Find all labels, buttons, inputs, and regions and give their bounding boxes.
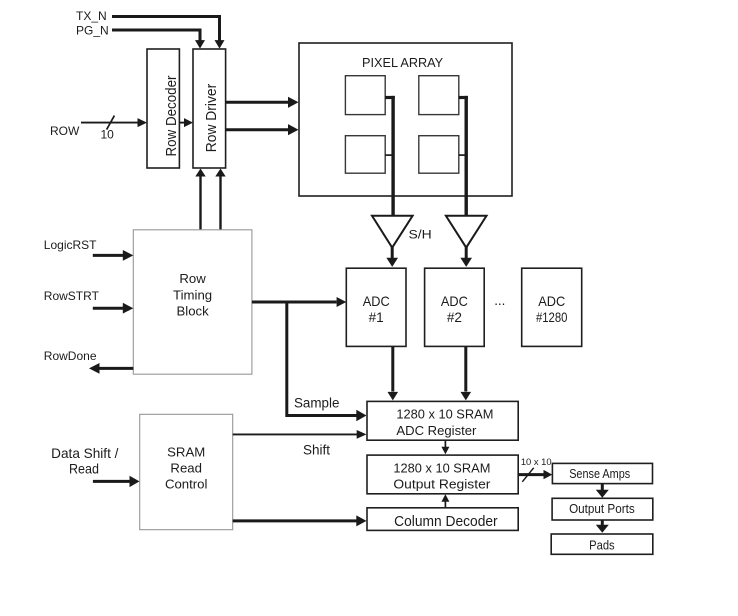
block PIXEL ARRAY xyxy=(299,43,512,196)
svg-text:Column Decoder: Column Decoder xyxy=(394,513,498,530)
label ADC 1280 xyxy=(536,294,568,325)
wire RowSTRT xyxy=(93,303,134,314)
svg-text:S/H: S/H xyxy=(409,227,432,241)
wire Row Timing Block to Row Driver 1 xyxy=(195,169,205,230)
svg-text:Read: Read xyxy=(69,462,99,477)
svg-text:Data Shift /: Data Shift / xyxy=(51,446,118,461)
block Pads xyxy=(551,534,653,554)
svg-text:10: 10 xyxy=(101,128,115,142)
wire RowDone xyxy=(89,363,133,374)
svg-text:PG_N: PG_N xyxy=(76,23,109,37)
wire LogicRST xyxy=(93,250,134,261)
label ADC 2 xyxy=(441,294,468,325)
wire Sense Amps to Output Ports xyxy=(596,484,609,498)
svg-text:LogicRST: LogicRST xyxy=(44,238,97,252)
svg-text:TX_N: TX_N xyxy=(76,9,107,23)
block Row Driver xyxy=(193,49,226,168)
pixel cell bottom-right xyxy=(419,136,459,174)
svg-text:Row Decoder: Row Decoder xyxy=(163,75,180,156)
wire TX_N xyxy=(112,17,225,49)
wire ROW bus xyxy=(81,118,147,127)
wire Output Ports to Pads xyxy=(596,520,609,533)
wire PG_N xyxy=(112,30,205,49)
wire column 2 xyxy=(459,96,468,216)
svg-text:10 x 10: 10 x 10 xyxy=(521,456,552,467)
wire S/H 1 to ADC 1 xyxy=(386,246,398,267)
wire Shift xyxy=(233,430,367,439)
svg-text:...: ... xyxy=(494,293,505,308)
wire ADC Register to Output Register xyxy=(441,440,449,454)
block SRAM Output Register xyxy=(367,455,518,494)
wire Column Decoder to Output Register xyxy=(441,494,449,508)
svg-text:RowSTRT: RowSTRT xyxy=(44,289,100,303)
wire Row Decoder to Row Driver xyxy=(179,118,193,127)
svg-text:ADC: ADC xyxy=(363,294,390,309)
svg-text:ADC Register: ADC Register xyxy=(396,423,477,438)
svg-text:ADC: ADC xyxy=(441,294,468,309)
svg-text:Block: Block xyxy=(176,303,209,318)
wire Row Driver to Pixel Array row line 2 xyxy=(226,124,299,135)
svg-text:Row: Row xyxy=(179,271,206,286)
svg-text:1280 x 10 SRAM: 1280 x 10 SRAM xyxy=(396,407,493,422)
wire Output Register to Sense Amps bus xyxy=(518,470,552,479)
svg-text:SRAM: SRAM xyxy=(167,445,205,460)
svg-text:Row Driver: Row Driver xyxy=(203,84,220,153)
label ADC 1 xyxy=(363,294,390,325)
svg-text:Read: Read xyxy=(170,461,202,476)
block SRAM ADC Register xyxy=(367,401,518,440)
wire ADC 1 to ADC Register xyxy=(388,346,399,400)
block Output Ports xyxy=(552,498,653,520)
block Row Decoder xyxy=(147,49,179,168)
label Row Timing Block xyxy=(173,271,212,318)
wire Row Timing Block to Row Driver 2 xyxy=(215,169,225,230)
block SRAM Read Control xyxy=(140,414,233,529)
pixel cell bottom-left xyxy=(345,136,385,174)
block Row Timing Block xyxy=(133,230,252,374)
block ADC 1 xyxy=(346,268,406,346)
wire S/H 2 to ADC 2 xyxy=(460,246,472,267)
svg-text:RowDone: RowDone xyxy=(44,349,97,363)
svg-text:Sense Amps: Sense Amps xyxy=(569,466,630,481)
wire Row Driver to Pixel Array row line 1 xyxy=(226,97,299,108)
svg-text:1280 x 10 SRAM: 1280 x 10 SRAM xyxy=(393,461,490,476)
bus slash xyxy=(107,116,115,130)
pixel cell top-left xyxy=(345,76,385,115)
label Data Shift / Read xyxy=(51,446,118,477)
wire Row Timing Block to ADC 1 xyxy=(252,297,346,307)
pixel cell top-right xyxy=(419,76,459,115)
svg-text:Timing: Timing xyxy=(173,287,212,302)
wire Data Shift / Read xyxy=(93,476,140,487)
wire Sample branch xyxy=(287,302,367,421)
svg-text:Pads: Pads xyxy=(589,537,615,552)
block ADC 1280 xyxy=(522,268,582,346)
block Column Decoder xyxy=(367,508,518,531)
svg-text:#1: #1 xyxy=(369,310,384,325)
svg-text:Output Ports: Output Ports xyxy=(569,501,635,516)
S/H amplifier 1 xyxy=(372,216,413,248)
wire ADC 2 to ADC Register xyxy=(461,346,472,400)
label SRAM ADC Register xyxy=(396,407,493,438)
svg-text:#2: #2 xyxy=(447,310,462,325)
svg-text:PIXEL ARRAY: PIXEL ARRAY xyxy=(362,56,444,70)
svg-text:ADC: ADC xyxy=(538,294,565,309)
wire column 1 xyxy=(385,96,395,216)
svg-text:Sample: Sample xyxy=(294,396,339,411)
svg-text:Control: Control xyxy=(165,477,208,492)
svg-text:ROW: ROW xyxy=(50,124,80,138)
wire SRAM Read Control to Column Decoder xyxy=(233,515,367,526)
svg-text:Output Register: Output Register xyxy=(393,476,491,491)
svg-text:Shift: Shift xyxy=(303,443,330,458)
svg-text:#1280: #1280 xyxy=(536,310,568,325)
block Sense Amps xyxy=(552,463,652,483)
label SRAM Read Control xyxy=(165,445,208,492)
S/H amplifier 2 xyxy=(446,216,487,248)
block ADC 2 xyxy=(425,268,485,346)
bus slash 10x10 xyxy=(522,468,533,482)
label SRAM Output Register xyxy=(393,461,491,492)
